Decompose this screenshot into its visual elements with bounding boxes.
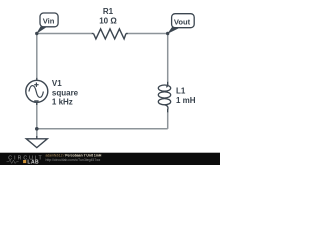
svg-text:10 Ω: 10 Ω <box>99 17 117 26</box>
svg-text:Vout: Vout <box>174 18 191 27</box>
svg-text:V1: V1 <box>52 79 62 88</box>
svg-text:L1: L1 <box>176 87 186 96</box>
svg-text:1 kHz: 1 kHz <box>52 98 73 107</box>
svg-text:http://circuitlab.com/c/7un3te: http://circuitlab.com/c/7un3teg457wz <box>46 158 101 162</box>
svg-text:square: square <box>52 88 79 97</box>
svg-text:1 mH: 1 mH <box>176 96 196 105</box>
svg-text:Vin: Vin <box>43 17 55 26</box>
svg-text:LAB: LAB <box>27 159 39 165</box>
svg-text:R1: R1 <box>103 7 114 16</box>
